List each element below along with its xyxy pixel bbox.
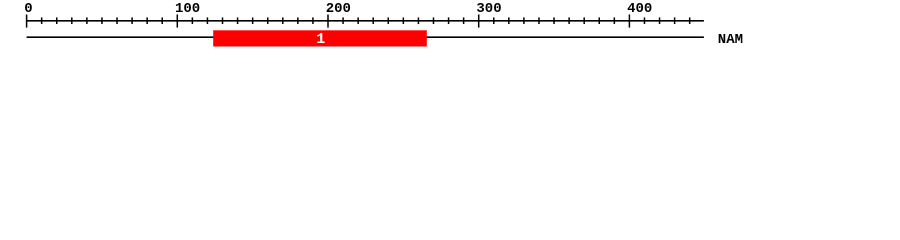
timeline wire — [27, 36, 704, 38]
svg-text:0: 0 — [24, 1, 32, 17]
svg-text:1: 1 — [316, 31, 325, 48]
ruler axis labels 0 100 200 300 400 — [24, 1, 652, 17]
time ruler panel — [0, 0, 900, 58]
svg-text:100: 100 — [175, 1, 200, 17]
ruler minor ticks — [42, 17, 690, 24]
svg-text:NAM: NAM — [718, 32, 743, 48]
svg-text:300: 300 — [476, 1, 501, 17]
ruler major ticks — [27, 15, 630, 28]
ruler baseline — [27, 20, 704, 22]
red activity bar 1 — [213, 30, 427, 46]
svg-text:200: 200 — [326, 1, 351, 17]
svg-text:400: 400 — [627, 1, 652, 17]
